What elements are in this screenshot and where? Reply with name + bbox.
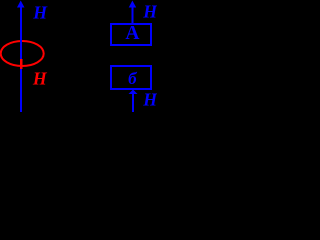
box b (bottom) bbox=[111, 66, 151, 89]
left field line arrowhead bbox=[17, 1, 25, 8]
svg-text:A: A bbox=[125, 23, 139, 44]
top-right arrowhead bbox=[129, 1, 137, 8]
background bbox=[0, 0, 157, 112]
svg-text:H: H bbox=[32, 69, 48, 89]
direction tick on loop (red) bbox=[20, 59, 22, 69]
wire: bottom-right arrow shaft bbox=[132, 91, 134, 112]
bottom-right arrowhead bbox=[129, 90, 138, 95]
wire: top-right arrow shaft bbox=[131, 6, 133, 24]
wire: left field line (blue vertical) bbox=[20, 6, 22, 112]
svg-text:H: H bbox=[142, 2, 157, 22]
svg-text:H: H bbox=[32, 3, 48, 23]
circulation loop (red ellipse) bbox=[1, 41, 44, 66]
box A (top) bbox=[111, 24, 151, 45]
svg-text:H: H bbox=[142, 90, 157, 110]
